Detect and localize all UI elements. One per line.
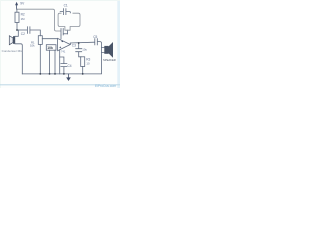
op-amp lower-left line to rail [59,50,61,74]
wire top rail to right [17,9,61,31]
svg-text:10k: 10k [47,46,53,50]
capacitor C2 plates [27,27,30,34]
wire C2 to R1 [30,30,40,36]
left faint edge [0,0,1,88]
wire R1 to rail [39,44,41,74]
speaker symbol [104,42,113,58]
svg-text:ElProCus.com: ElProCus.com [95,84,116,88]
small box legs to rail [50,50,56,74]
resistor R3 [81,57,85,67]
wire C5 right to speaker [98,42,102,74]
svg-text:C5: C5 [93,35,97,39]
C3 plates [76,49,82,52]
capacitor C5 plates [95,39,98,45]
wire R2 bottom to node [16,23,18,31]
feedback horizontal wire [64,33,68,35]
supply arrow V+ [16,5,18,10]
speaker terminal stubs [102,48,105,53]
box B rounded [58,13,80,30]
R3 to rail [82,67,84,74]
svg-text:10: 10 [86,62,90,66]
right light blue band [117,0,120,88]
capacitor C4 lead + plates [60,57,64,63]
C3 chain: lead from output node [78,43,80,48]
svg-text:10k: 10k [30,44,35,48]
capacitor C1 plates + leads [60,8,71,15]
microphone symbol [9,36,15,45]
ground symbol stem [68,74,70,78]
svg-text:C4: C4 [68,64,72,68]
lead to R3 [79,52,81,57]
wire R2 top stub [16,9,18,12]
top faint edge [0,0,120,1]
ground arrow head [66,77,71,81]
svg-text:Condenser Mic: Condenser Mic [2,49,23,53]
background [0,0,120,88]
junction dots [16,29,84,75]
wire node to C2 [17,29,27,31]
op-amp plus mark [59,46,61,48]
wire R1 to op-amp input [42,38,57,40]
ground rail [22,73,101,75]
svg-text:10u: 10u [82,47,87,51]
svg-text:C1: C1 [64,3,68,7]
wire node down to mic [15,30,18,36]
svg-text:C3: C3 [72,43,76,47]
resistor R2 [15,12,19,22]
op-amp U1 triangle [58,38,71,50]
supply arrow head [15,2,18,5]
op-amp input dot mark [62,41,64,43]
resistor R1 [38,36,42,45]
box B stub down [67,30,69,34]
svg-text:SPEAKER: SPEAKER [103,58,116,62]
bottom border line [0,84,120,85]
capacitor small plates near box B bottom-left [61,29,63,36]
svg-text:C2: C2 [21,32,25,36]
op-amp output wire [70,42,94,44]
small box near op-amp [46,45,56,51]
wire from cap down to input node [60,35,62,39]
labels [20,2,97,68]
mic ground wire [15,44,22,74]
svg-text:1M: 1M [21,17,26,21]
svg-text:741: 741 [61,50,66,54]
